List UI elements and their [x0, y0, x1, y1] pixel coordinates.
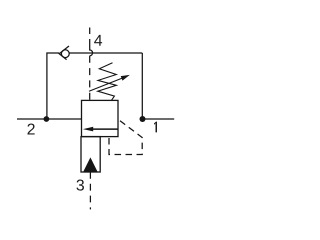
pilot line port4 dashed lower	[89, 56, 91, 101]
adjuster arrow head	[121, 75, 130, 81]
check valve ball	[61, 50, 69, 58]
label port 1	[154, 122, 157, 133]
pilot line port4 dash a	[89, 28, 91, 35]
adjuster arrow shaft	[89, 77, 126, 92]
node junction dot right	[140, 116, 146, 122]
check valve seat	[59, 46, 69, 60]
wire left vertical riser	[47, 53, 59, 119]
relief flow triangle	[83, 157, 97, 171]
relief port block	[81, 137, 100, 172]
label port 3	[77, 179, 84, 190]
wire right vertical drop	[141, 53, 143, 119]
wire port3 dashed drain	[89, 172, 91, 209]
label port 4	[94, 35, 102, 46]
valve body U1	[82, 100, 119, 136]
wire port2 horizontal left	[17, 118, 82, 120]
label port 2	[27, 123, 34, 134]
wire port1 horizontal right	[143, 118, 175, 120]
pilot line port4 dash b with crossing arc jump	[90, 39, 93, 56]
spring	[98, 63, 117, 101]
wire top horizontal	[69, 52, 142, 54]
node junction dot left	[44, 116, 50, 122]
flow arrow shaft	[90, 128, 118, 130]
flow arrow head	[83, 127, 93, 132]
pilot line right dashed path	[109, 119, 142, 154]
